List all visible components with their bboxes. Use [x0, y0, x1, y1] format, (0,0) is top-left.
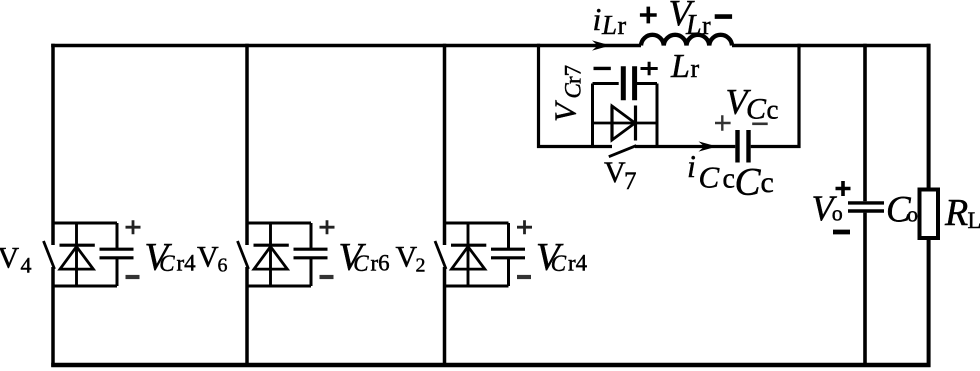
svg-text:L: L — [670, 48, 690, 85]
svg-text:C: C — [159, 251, 175, 276]
svg-text:V: V — [396, 241, 418, 274]
svg-text:R: R — [944, 192, 968, 234]
svg-text:r4: r4 — [177, 251, 197, 276]
svg-text:i: i — [687, 148, 696, 184]
svg-text:L: L — [685, 10, 702, 41]
svg-text:V: V — [0, 242, 20, 275]
svg-text:C: C — [699, 160, 720, 195]
svg-text:L: L — [601, 10, 617, 40]
svg-text:r7: r7 — [561, 65, 586, 84]
svg-text:C: C — [746, 93, 767, 126]
svg-text:C: C — [353, 251, 369, 276]
svg-text:6: 6 — [218, 255, 228, 277]
svg-text:L: L — [968, 208, 980, 233]
svg-text:V: V — [604, 156, 626, 189]
svg-text:7: 7 — [624, 168, 637, 195]
svg-text:V: V — [548, 100, 583, 122]
svg-text:r: r — [691, 54, 700, 83]
svg-text:C: C — [735, 161, 762, 204]
svg-text:o: o — [832, 201, 843, 226]
svg-text:c: c — [767, 95, 779, 125]
svg-text:C: C — [551, 251, 567, 276]
svg-text:V: V — [197, 241, 219, 274]
svg-text:c: c — [761, 166, 774, 199]
svg-text:o: o — [907, 202, 918, 227]
svg-text:4: 4 — [21, 253, 32, 278]
svg-text:r: r — [702, 11, 711, 40]
svg-text:2: 2 — [416, 255, 426, 277]
svg-text:r: r — [618, 11, 627, 40]
svg-text:r6: r6 — [371, 251, 390, 276]
svg-text:i: i — [593, 1, 602, 37]
svg-text:c: c — [723, 164, 735, 195]
svg-text:r4: r4 — [568, 251, 588, 276]
